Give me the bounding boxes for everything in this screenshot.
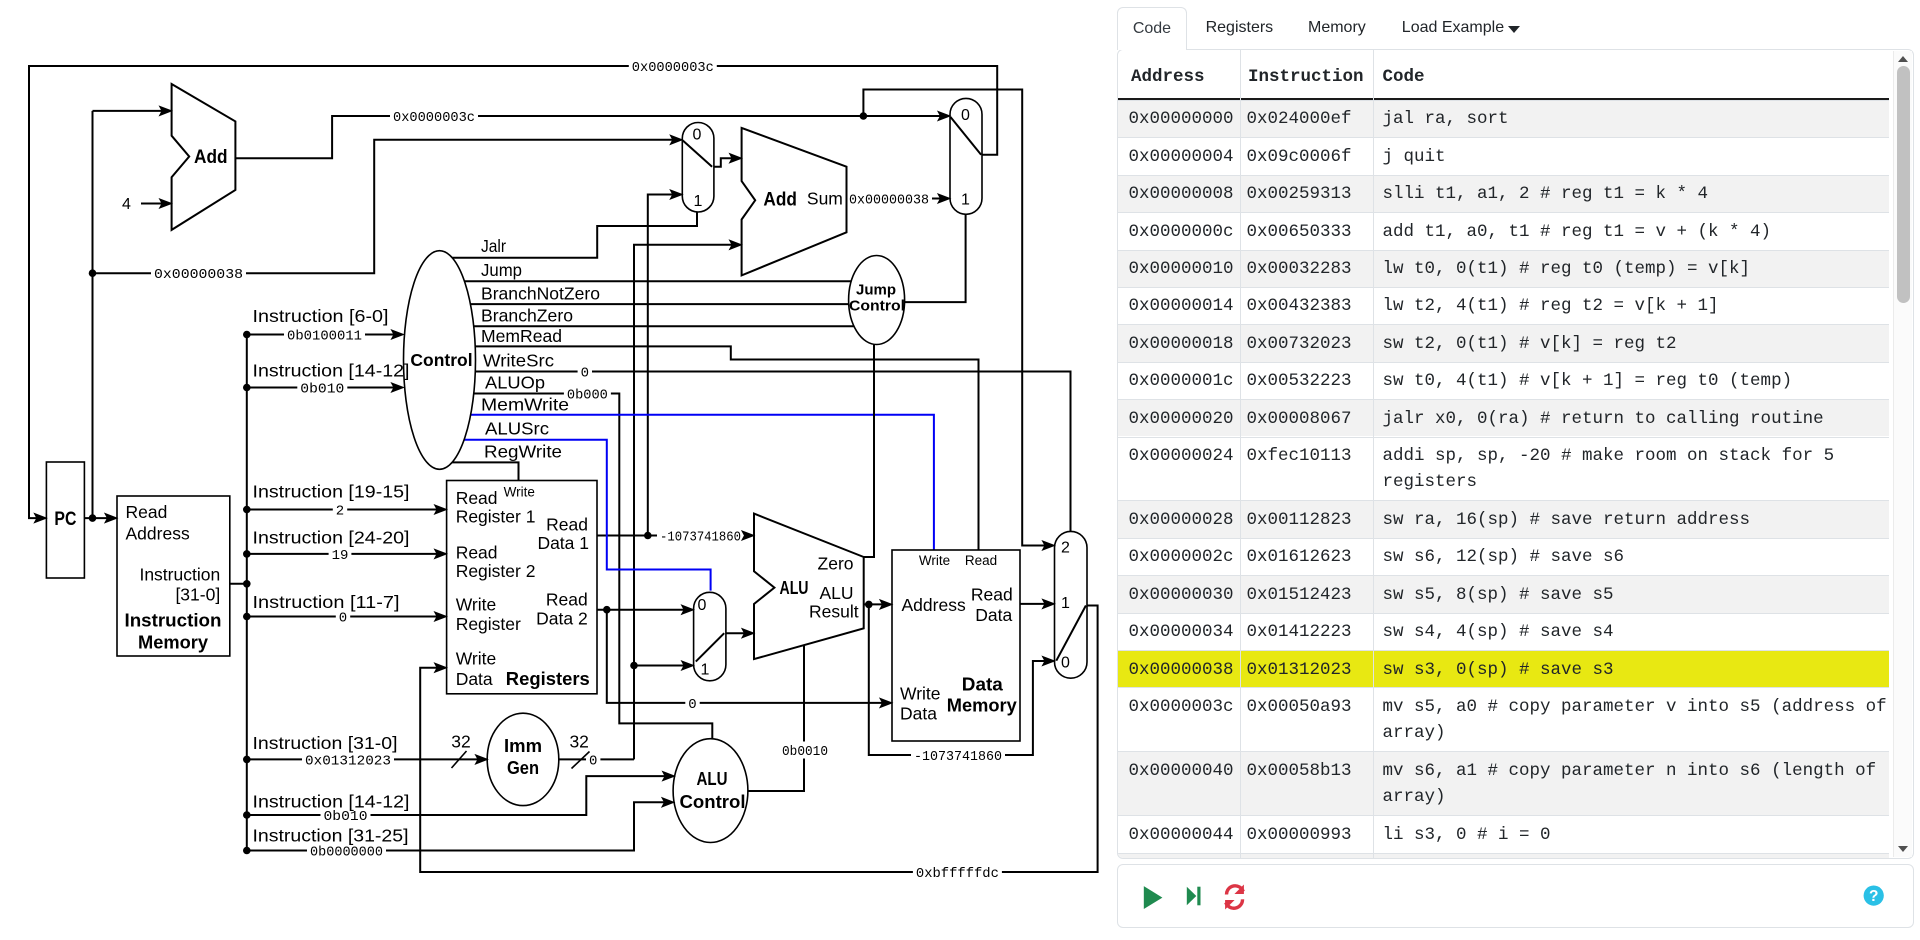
net label WriteSrc value 0 <box>578 363 592 380</box>
wire: ALUSrc signal (active, blue) from Control to ALU-source mux select <box>440 440 711 591</box>
wire: Instruction [19-15] to Read Register 1 <box>247 509 445 511</box>
wire: ALUOp signal 0b000 from Control to ALU Control <box>440 394 712 741</box>
arrowheads <box>34 514 46 523</box>
wire: RegWrite signal from Control to Registers Write port <box>440 462 519 480</box>
ALU Control ellipse <box>673 739 748 843</box>
wire: PC+4 branch up to writeback mux input 2 <box>863 90 1052 546</box>
wire: immediate to ALU-source mux input 1 <box>634 665 692 667</box>
wire: Data Memory Read Data to writeback mux input 1 <box>1020 603 1052 605</box>
wire: Read Data 1 (rs1) to ALU top input <box>597 535 752 537</box>
net label immediate 0 <box>586 751 600 768</box>
wire: Read Data 2 (rs2) to ALU-source mux input 0 <box>597 609 692 611</box>
wire: Instruction [31-25] funct7 to ALU Control <box>247 802 672 850</box>
register PC <box>46 462 84 578</box>
wire: mux A output into Add Sum top input <box>712 158 739 167</box>
wire: BranchNotZero signal from Control to Jump Control <box>440 303 849 305</box>
mux ALU source (rs2 / imm) <box>694 592 726 681</box>
junction dots <box>89 269 97 277</box>
svg-text:?: ? <box>1869 888 1878 905</box>
wire: Add output PC+4 0x0000003c to mux B input 0 <box>235 116 948 158</box>
net label instruction word 0x01312023 <box>302 751 394 768</box>
net label PC+4 0x0000003c <box>390 107 478 124</box>
net label write data 0 <box>685 694 699 711</box>
wire: Instruction [31-0] to Imm Gen <box>247 758 486 760</box>
net label rd index 0 <box>336 608 350 625</box>
mux A (PC / rs1) <box>682 123 714 213</box>
wire: Imm Gen output to immediate riser <box>559 758 634 760</box>
help button <box>1864 886 1884 906</box>
step button <box>1187 887 1197 906</box>
wire: BranchZero signal from Control to Jump Control <box>440 325 854 327</box>
wire: ALU Zero flag up to Jump Control <box>864 345 874 557</box>
wire: writeback mux output 0xbfffffdc back to Registers Write Data <box>420 606 1097 873</box>
wire: Instruction [6-0] opcode to Control <box>247 334 402 336</box>
wire: ALU Result -1073741860 down/right to writeback mux input 0 <box>869 604 1052 755</box>
wire: constant 4 into Add <box>141 203 169 205</box>
net label rs2 index 19 <box>329 545 352 562</box>
adder Add (PC+4) <box>172 84 236 230</box>
net label next-PC 0x0000003c <box>629 58 717 75</box>
wire: Instruction [14-12] to Control <box>247 387 402 389</box>
wire: Instruction [31-0] from Instruction Memory to instruction bus <box>230 583 247 585</box>
wire: PC output to Instruction Memory Read Address <box>84 517 115 519</box>
wire: WriteSrc signal from Control to writeback mux select (top) <box>440 372 1071 532</box>
wire: PC value 0x00000038 to mux A input 0 <box>93 140 681 273</box>
instruction memory <box>117 496 230 656</box>
wire: ALU-source mux output to ALU bottom input <box>724 632 752 634</box>
net label opcode 0b0100011 <box>284 326 365 343</box>
reset button <box>1226 886 1243 908</box>
net label branch target 0x00000038 <box>846 190 932 207</box>
wire: Jump Control output to mux B select (bottom) <box>877 214 966 302</box>
wire: instruction bus vertical <box>246 335 248 851</box>
wire: Instruction [24-20] to Read Register 2 <box>247 553 445 555</box>
ALU <box>754 514 864 660</box>
mux writeback (PC+4 / mem / ALU) <box>1055 531 1088 678</box>
wire: Instruction [11-7] to Write Register <box>247 616 445 618</box>
play button <box>1144 886 1163 909</box>
wire: Jalr select from Control to mux A bottom <box>440 212 697 258</box>
net label ALUOp value 0b000 <box>564 385 611 402</box>
wire: MemRead signal from Control to Data Memory Read port <box>440 346 979 550</box>
wire: immediate riser to Add Sum bottom input <box>634 245 739 760</box>
wire: PC into Add (PC+4) top input <box>93 110 170 112</box>
data memory <box>892 550 1020 741</box>
wire: rs2 down to Data Memory Write Data <box>607 610 890 703</box>
register file Registers <box>447 481 597 694</box>
wire: rs1 riser to mux A input 1 <box>648 195 680 536</box>
wire: Instruction [14-12] funct3 to ALU Control <box>247 776 673 815</box>
wire: Add Sum output 0x00000038 to mux B input 1 <box>847 198 949 200</box>
immediate generator Imm Gen <box>487 713 559 805</box>
Jump Control ellipse <box>849 256 905 345</box>
net label funct7 0b0000000 <box>307 842 386 859</box>
net label rs1 index 2 <box>333 501 347 518</box>
wire: Jump signal from Control to Jump Control <box>440 280 851 282</box>
net label funct3 0b010 <box>297 379 347 396</box>
wire: ALU Result to Data Memory Address <box>864 603 890 605</box>
wire: ALU Control output 0b0010 into ALU bottom edge <box>748 644 804 791</box>
net label ALU result -1073741860 <box>911 747 1005 764</box>
net label Read Data 1 -1073741860 <box>657 527 744 544</box>
wire: next-PC from mux B output, top line 0x0000003c, down left edge into PC <box>29 66 997 518</box>
wire: MemWrite signal (active, blue) from Control to Data Memory Write port <box>440 415 934 550</box>
net label ALU control 0b0010 <box>779 742 831 759</box>
net label writeback value 0xbfffffdc <box>913 864 1002 881</box>
net label PC 0x00000038 <box>151 265 246 282</box>
wire: PC value vertical riser x=92.5 <box>92 111 94 518</box>
mux B (PC+4 / branch target) <box>950 98 982 214</box>
net label funct3 0b010 (to ALU Control) <box>321 807 371 824</box>
control unit ellipse <box>404 251 476 470</box>
adder Add Sum (branch target) <box>742 128 847 276</box>
